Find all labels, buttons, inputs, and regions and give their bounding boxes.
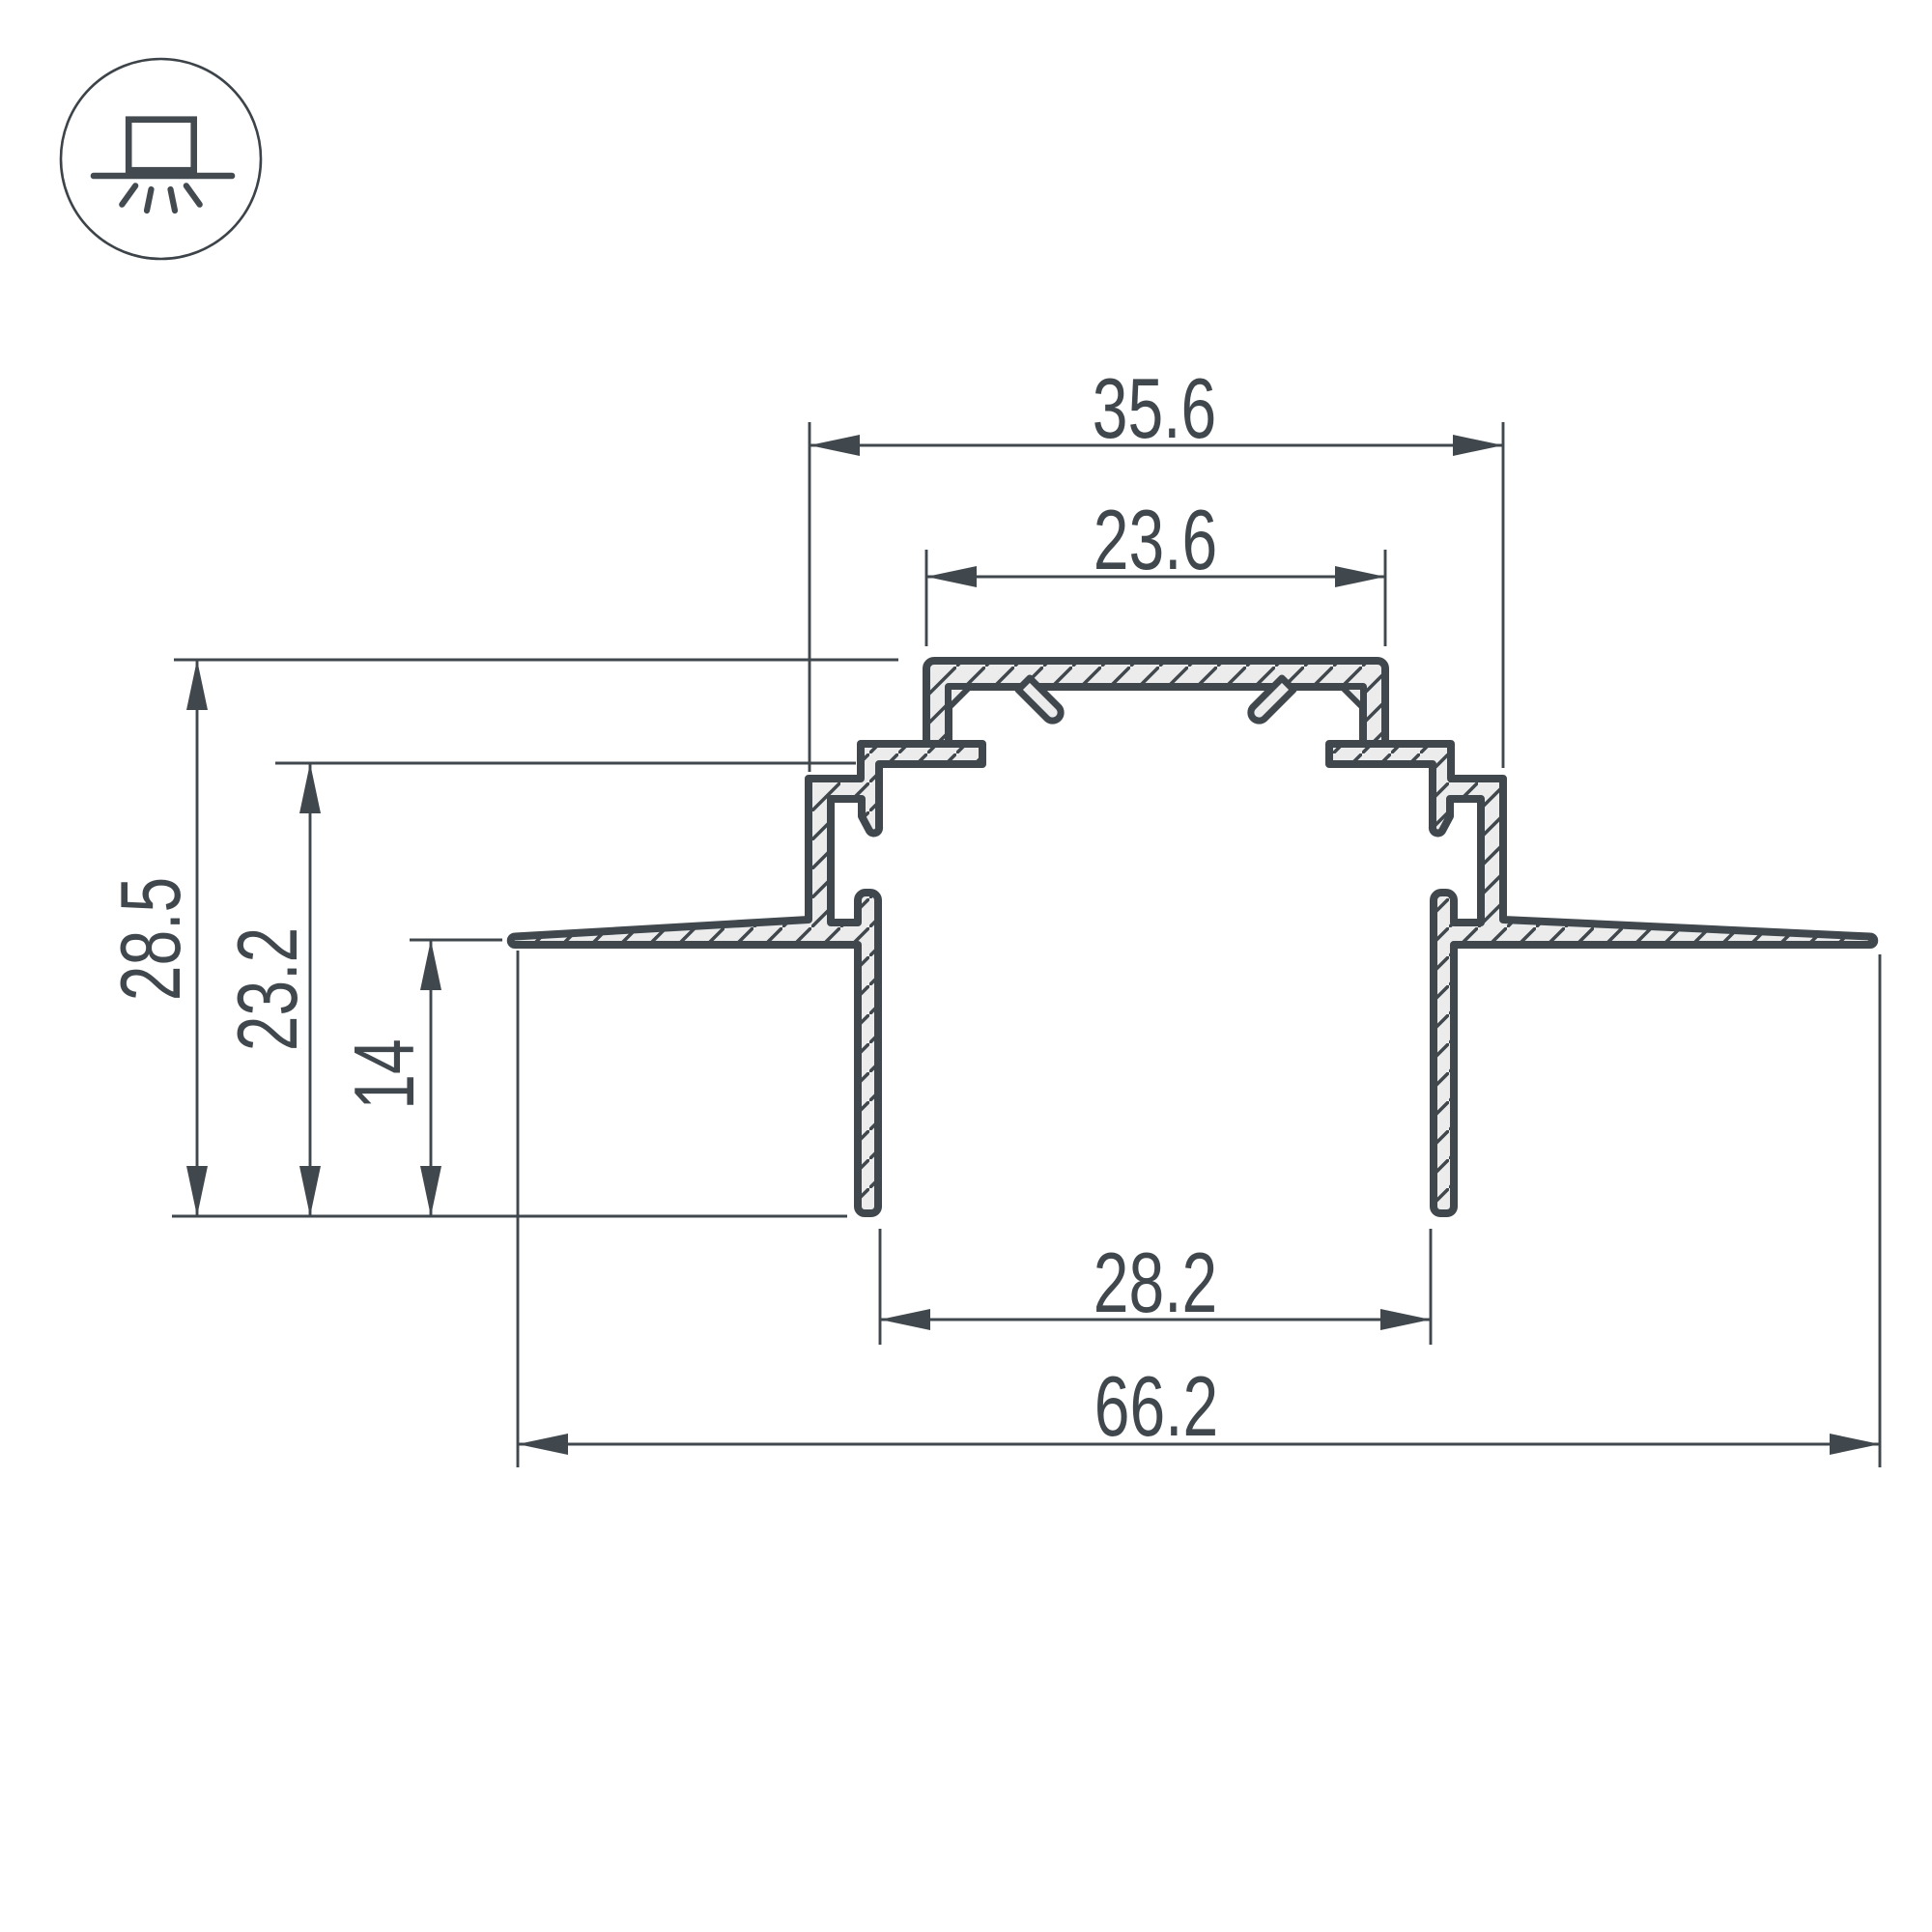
dimension 23.2 line — [309, 763, 312, 1216]
cover corner fillet right — [1342, 687, 1363, 708]
dimension 28.2 arrowheads — [880, 1309, 1431, 1330]
dimension 28.5 witness lines — [172, 660, 898, 1216]
icon light rays — [122, 185, 199, 211]
dimension 14 witness line — [410, 939, 502, 942]
svg-text:28.2: 28.2 — [1094, 1236, 1217, 1330]
dimension 28.5 label — [104, 877, 198, 1001]
dimension 23.6 arrowheads — [926, 566, 1385, 587]
icon ceiling line — [94, 173, 232, 180]
icon circle (recessed mounting symbol) — [61, 59, 261, 259]
svg-text:35.6: 35.6 — [1093, 362, 1216, 456]
dimension 28.5 line — [196, 660, 199, 1216]
dimension 14 label — [338, 1038, 432, 1109]
cover retaining tooth left — [1018, 678, 1061, 721]
svg-text:23.6: 23.6 — [1094, 494, 1217, 587]
dimension 14 arrowheads — [420, 940, 441, 1216]
svg-text:66.2: 66.2 — [1094, 1360, 1218, 1454]
dimension 23.6 line — [926, 576, 1385, 579]
dimension 23.2 witness line — [275, 762, 856, 765]
svg-text:28.5: 28.5 — [104, 877, 198, 1001]
cover retaining tooth right — [1251, 678, 1293, 721]
dimension 66.2 witness lines — [518, 951, 1880, 1467]
dimension 35.6 label — [1093, 362, 1216, 456]
left rail (ear, step, outer wall, wing flange, inner wall, hook; hatched) — [511, 744, 982, 1213]
dimension 23.2 arrowheads — [299, 763, 321, 1216]
dimension 35.6 line — [810, 444, 1503, 447]
dimension 35.6 witness lines — [810, 422, 1503, 772]
dimension 66.2 arrowheads — [518, 1434, 1880, 1455]
dimension 28.2 witness lines — [880, 1229, 1431, 1345]
dimension 23.6 witness lines — [926, 550, 1385, 646]
dimension 28.5 arrowheads — [186, 660, 208, 1216]
dimension 23.6 label — [1094, 494, 1217, 587]
dimension 28.2 line — [880, 1319, 1431, 1321]
dimension 66.2 line — [518, 1443, 1880, 1446]
right rail (ear, step, outer wall, wing flange, inner wall, hook; hatched) — [1329, 744, 1874, 1213]
cover corner fillet left — [949, 687, 970, 708]
dimension 66.2 label — [1094, 1360, 1218, 1454]
dimension 14 line — [430, 940, 433, 1216]
dimension 35.6 arrowheads — [810, 435, 1503, 456]
dimension 28.2 label — [1094, 1236, 1217, 1330]
profile cover plate (top hat section, hatched) — [926, 661, 1385, 744]
svg-text:23.2: 23.2 — [221, 927, 315, 1051]
icon fixture square — [128, 120, 194, 171]
svg-text:14: 14 — [338, 1038, 432, 1109]
dimension 23.2 label — [221, 927, 315, 1051]
